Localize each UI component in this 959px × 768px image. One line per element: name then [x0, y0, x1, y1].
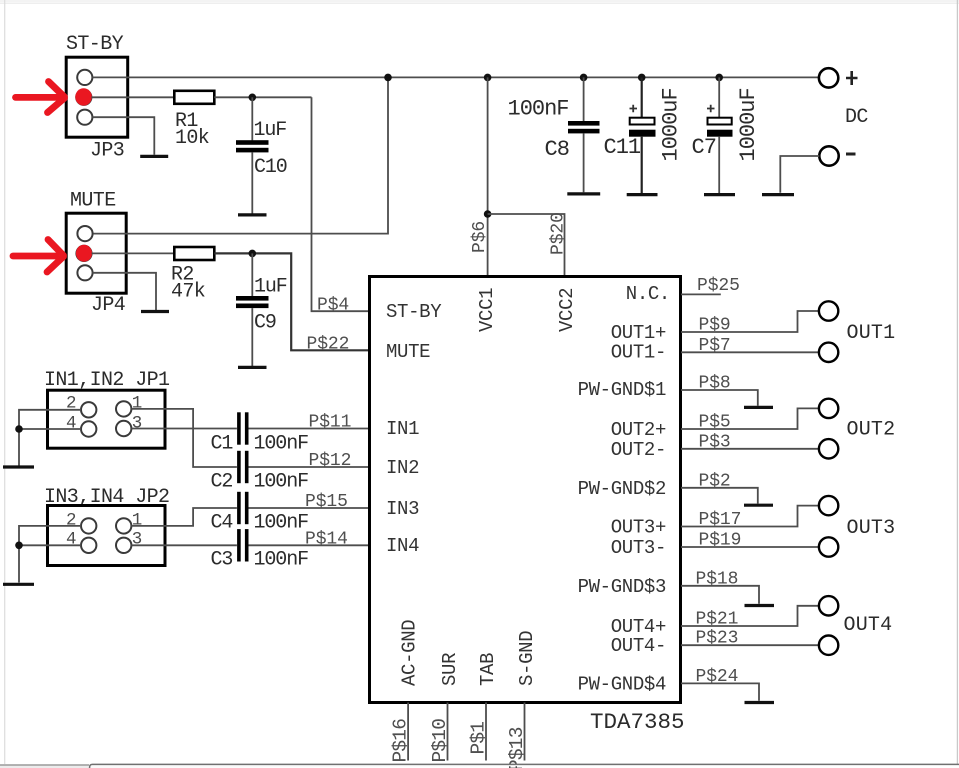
window chrome: top edge	[0, 0, 959, 3]
svg-text:C4: C4	[211, 512, 233, 535]
wire: AC-GND pin stub (P$16)	[407, 703, 409, 761]
connector JP2 body	[48, 506, 166, 566]
svg-text:P$7: P$7	[699, 336, 731, 356]
wire: JP1 pin1 to C2	[131, 409, 237, 467]
svg-text:OUT4-: OUT4-	[611, 635, 666, 657]
wire: DC- to ground	[780, 156, 819, 193]
svg-text:C11: C11	[604, 135, 641, 160]
wire: C8 lower lead	[583, 133, 585, 192]
svg-text:MUTE: MUTE	[70, 190, 116, 213]
JP3 pin 2 circle	[76, 90, 91, 105]
capacitor C8 plates	[568, 121, 600, 126]
plus mark (C7 polarity)	[707, 105, 715, 113]
wire: PW-GND$2 (P$2) to ground	[681, 488, 758, 504]
wire: C10 lower lead	[251, 152, 253, 213]
svg-text:1uF: 1uF	[254, 119, 287, 142]
op-amp/IC U1 body (TDA7385)	[370, 277, 681, 703]
svg-text:P$6: P$6	[470, 221, 490, 253]
svg-text:OUT4: OUT4	[844, 614, 893, 637]
ground (PW-GND$4)	[745, 701, 775, 704]
svg-text:C9: C9	[254, 312, 276, 335]
JP2 pin 1 circle	[116, 518, 131, 533]
svg-text:MUTE: MUTE	[386, 341, 430, 363]
OUT2+ terminal circle	[819, 399, 838, 418]
svg-text:10k: 10k	[175, 127, 209, 150]
capacitor C4 plates	[237, 492, 241, 524]
resistor R2	[174, 247, 214, 260]
capacitor C11 positive plate	[630, 118, 655, 125]
junction on rail at C8	[580, 74, 588, 82]
OUT3+ terminal circle	[819, 496, 838, 515]
wire: OUT4+ (P$21) to terminal	[681, 606, 819, 626]
svg-text:C3: C3	[211, 549, 233, 572]
svg-text:P$18: P$18	[696, 569, 739, 589]
svg-text:P$23: P$23	[696, 629, 739, 649]
wire: PW-GND$1 (P$8) to ground	[681, 390, 758, 406]
svg-text:P$13: P$13	[506, 727, 528, 768]
red annotation dot on JP3 pin 2	[75, 88, 92, 105]
OUT4- terminal circle	[819, 636, 838, 655]
JP4 pin 1 circle	[77, 226, 92, 241]
wire: JP2 pin2 left to ground rail	[19, 526, 81, 583]
svg-text:ST-BY: ST-BY	[386, 301, 442, 323]
svg-text:47k: 47k	[171, 281, 205, 304]
wire: JP2 pin3 to C3	[131, 544, 237, 546]
JP3 pin 1 circle	[77, 70, 92, 85]
wire: OUT2+ (P$5) to terminal	[681, 408, 819, 429]
junction on rail at x=388	[384, 74, 392, 82]
wire: JP1 pin2 left to ground rail	[19, 410, 81, 466]
ground (JP1)	[3, 465, 34, 468]
connector JP1 body	[48, 390, 166, 448]
svg-text:2: 2	[66, 511, 77, 531]
svg-text:3: 3	[132, 530, 143, 550]
wire: OUT2- (P$3) to terminal	[681, 448, 819, 450]
svg-text:1uF: 1uF	[254, 276, 287, 299]
wire: JP4 pin2 to R2	[92, 252, 175, 254]
ground (C11)	[627, 193, 658, 196]
svg-text:P$21: P$21	[696, 610, 739, 630]
wire: C2 to IC IN2 (net P$12)	[249, 466, 370, 468]
svg-text:TAB: TAB	[477, 653, 499, 686]
ground (PW-GND$1)	[744, 406, 773, 409]
svg-text:100nF: 100nF	[254, 433, 309, 456]
red annotation dot on JP4 pin 2	[76, 245, 92, 262]
JP1 pin 4 circle	[81, 421, 96, 436]
wire: C1 to IC IN1 (net P$11)	[249, 428, 370, 430]
svg-text:P$20: P$20	[549, 212, 569, 255]
ground (C9)	[238, 366, 267, 369]
capacitor C2 plates	[237, 451, 241, 483]
wire: C9 lower lead	[251, 308, 253, 366]
junction at R2/C9 node	[249, 250, 257, 258]
JP2 pin 3 circle	[116, 538, 131, 553]
DC- terminal circle	[819, 146, 838, 165]
svg-text:1: 1	[132, 511, 143, 531]
capacitor C10 plates	[236, 140, 269, 145]
svg-text:IN3: IN3	[386, 498, 419, 520]
OUT1- terminal circle	[819, 343, 838, 362]
plus mark (C11 polarity)	[630, 105, 638, 113]
svg-text:IN4: IN4	[386, 535, 419, 557]
DC+ terminal circle	[819, 68, 838, 87]
wire: C11 lower lead	[641, 137, 643, 193]
window chrome: left edge	[4, 0, 6, 764]
svg-text:P$22: P$22	[307, 335, 350, 355]
svg-text:1: 1	[132, 394, 143, 414]
svg-text:P$1: P$1	[468, 722, 490, 755]
wire: JP2 pin1 to C4	[131, 508, 237, 526]
svg-text:P$2: P$2	[699, 471, 731, 491]
wire: C7 upper lead	[718, 77, 720, 117]
svg-text:1000uF: 1000uF	[736, 88, 761, 161]
svg-text:VCC1: VCC1	[476, 288, 498, 332]
OUT2- terminal circle	[819, 439, 838, 458]
wire: JP4 pin3 to ground	[92, 273, 156, 310]
svg-text:JP3: JP3	[90, 140, 124, 163]
wire: SUR pin stub (P$10)	[447, 703, 449, 761]
OUT4+ terminal circle	[819, 596, 838, 615]
ground (C8)	[567, 192, 600, 195]
JP2 pin 2 circle	[81, 518, 96, 533]
wire: N.C. stub (P$25)	[681, 293, 721, 295]
JP4 pin 2 circle	[76, 246, 91, 261]
svg-text:OUT2: OUT2	[847, 419, 896, 442]
svg-text:100nF: 100nF	[254, 512, 309, 535]
wire: R1 to ST-BY net corner	[214, 96, 311, 98]
svg-text:DC: DC	[845, 106, 868, 129]
resistor R1	[174, 91, 214, 104]
wire: OUT4- (P$23) to terminal	[681, 644, 819, 646]
junction on rail at C7	[715, 74, 723, 82]
svg-text:4: 4	[66, 414, 77, 434]
wire: OUT1+ (P$9) to terminal	[681, 311, 819, 332]
wire: PW-GND$4 (P$24) to ground	[681, 683, 759, 700]
wire: C8 upper lead	[583, 77, 585, 121]
svg-text:P$3: P$3	[699, 432, 731, 452]
ground (JP2)	[3, 583, 34, 586]
svg-text:OUT2-: OUT2-	[611, 439, 666, 461]
wire: VCC feed down to IC VCC1 (P$6)	[487, 77, 489, 276]
svg-text:100nF: 100nF	[508, 97, 569, 122]
wire: C4 to IC IN3 (net P$15)	[249, 507, 370, 509]
svg-text:IN2: IN2	[386, 457, 419, 479]
junction on rail at C11	[638, 74, 646, 82]
junction on rail for VCC feed	[484, 74, 492, 82]
JP3 pin 3 circle	[77, 110, 92, 125]
svg-text:P$11: P$11	[309, 413, 352, 433]
svg-text:2: 2	[66, 394, 77, 414]
svg-text:N.C.: N.C.	[626, 283, 670, 305]
connector JP3 body	[66, 57, 128, 137]
connector JP4 body	[66, 213, 126, 293]
wire: JP4 pin1 up to supply rail	[94, 77, 389, 233]
svg-text:OUT3-: OUT3-	[611, 537, 666, 559]
JP1 pin 2 circle	[81, 402, 96, 417]
ground (JP3)	[140, 155, 168, 158]
capacitor C11 negative plate	[629, 130, 656, 137]
svg-text:OUT3: OUT3	[847, 517, 896, 540]
wire: JP2 pin4 left	[19, 544, 81, 546]
svg-text:P$9: P$9	[699, 316, 731, 336]
ground (DC-)	[762, 193, 794, 196]
svg-text:P$17: P$17	[699, 510, 742, 530]
JP1 pin 3 circle	[116, 421, 131, 436]
svg-text:JP4: JP4	[91, 294, 125, 317]
svg-text:P$19: P$19	[699, 531, 742, 551]
wire: PW-GND$3 (P$18) to ground	[681, 586, 759, 604]
svg-text:C8: C8	[545, 137, 569, 162]
wire: S-GND pin stub (P$13)	[524, 703, 526, 761]
svg-text:PW-GND$4: PW-GND$4	[578, 674, 666, 696]
svg-text:P$25: P$25	[697, 276, 740, 296]
wire: JP1 pin3 to C1	[131, 428, 237, 430]
svg-text:VCC2: VCC2	[556, 288, 578, 332]
red annotation arrow 1	[16, 82, 65, 113]
junction JP1 ground node	[15, 425, 23, 433]
OUT3- terminal circle	[819, 537, 838, 556]
wire: JP1 pin4 left	[19, 428, 81, 430]
wire: C10 upper lead	[251, 97, 253, 140]
junction JP2 ground node	[15, 542, 23, 550]
wire: VCC split over to VCC2 (P$20)	[488, 214, 565, 277]
svg-text:ST-BY: ST-BY	[66, 33, 124, 56]
wire: OUT3+ (P$17) to terminal	[681, 506, 819, 527]
svg-text:P$8: P$8	[699, 374, 731, 394]
junction at R1/C10 node	[249, 94, 257, 102]
svg-text:P$10: P$10	[429, 719, 451, 763]
wire: OUT1- (P$7) to terminal	[681, 351, 819, 353]
ground (C7)	[704, 193, 735, 196]
minus mark (DC-)	[846, 153, 856, 156]
ground (PW-GND$2)	[744, 504, 773, 507]
JP2 pin 4 circle	[81, 538, 96, 553]
svg-text:P$12: P$12	[309, 451, 352, 471]
svg-text:P$24: P$24	[696, 667, 739, 687]
capacitor C7 positive plate	[708, 118, 732, 125]
svg-text:100nF: 100nF	[254, 471, 309, 494]
wire: R2 to MUTE net, down to IC pin P$22	[214, 253, 369, 350]
wire: TAB pin stub (P$1)	[485, 703, 487, 761]
svg-text:100nF: 100nF	[254, 549, 309, 572]
svg-text:PW-GND$1: PW-GND$1	[578, 379, 666, 401]
ground (JP4)	[141, 310, 169, 313]
JP1 pin 1 circle	[116, 401, 131, 416]
svg-text:TDA7385: TDA7385	[590, 709, 685, 735]
capacitor C3 plates	[237, 529, 241, 561]
svg-text:OUT1: OUT1	[847, 322, 896, 345]
svg-text:PW-GND$3: PW-GND$3	[578, 576, 666, 598]
svg-text:1000uF: 1000uF	[659, 88, 684, 161]
junction at VCC split	[484, 210, 492, 218]
wire: C9 upper lead	[251, 253, 253, 296]
svg-text:S-GND: S-GND	[516, 631, 538, 686]
strip top border left segment	[0, 764, 89, 766]
OUT1+ terminal circle	[819, 301, 838, 320]
svg-text:IN1,IN2 JP1: IN1,IN2 JP1	[44, 369, 170, 392]
capacitor C9 plates	[236, 296, 269, 301]
svg-text:P$4: P$4	[317, 296, 349, 316]
svg-text:SUR: SUR	[439, 653, 461, 686]
wire: C11 upper lead	[641, 77, 643, 117]
svg-text:C7: C7	[692, 135, 716, 160]
svg-text:OUT1-: OUT1-	[611, 342, 666, 364]
svg-text:C2: C2	[211, 471, 233, 494]
svg-text:P$16: P$16	[390, 719, 412, 763]
capacitor C1 plates	[237, 412, 241, 444]
wire: top supply rail (JP3 pin1 to DC+)	[92, 76, 819, 78]
capacitor C7 negative plate	[707, 130, 733, 137]
svg-text:AC-GND: AC-GND	[399, 620, 421, 686]
scrollbar panel with rounded corner	[90, 764, 959, 768]
wire: JP3 pin3 to ground	[92, 117, 154, 155]
status strip background	[0, 766, 90, 768]
svg-text:C1: C1	[211, 433, 234, 456]
svg-text:P$15: P$15	[305, 492, 348, 512]
svg-text:OUT3+: OUT3+	[611, 517, 666, 539]
svg-text:C10: C10	[254, 156, 287, 179]
JP4 pin 3 circle	[77, 265, 92, 280]
wire: C7 lower lead	[718, 137, 720, 193]
svg-text:P$5: P$5	[699, 413, 731, 433]
wire: JP3 pin2 to R1	[91, 96, 174, 98]
svg-text:PW-GND$2: PW-GND$2	[578, 478, 666, 500]
svg-text:3: 3	[132, 414, 143, 434]
plus mark (DC+)	[846, 71, 858, 85]
svg-text:P$14: P$14	[305, 529, 348, 549]
window chrome: right edge	[956, 0, 958, 764]
wire: ST-BY net down to IC pin P$4	[312, 97, 370, 311]
ground (C10)	[238, 213, 267, 216]
svg-text:4: 4	[66, 530, 77, 550]
ground (PW-GND$3)	[745, 604, 775, 607]
svg-text:IN1: IN1	[386, 418, 419, 440]
wire: OUT3- (P$19) to terminal	[681, 546, 819, 548]
red annotation arrow 2	[13, 240, 64, 273]
wire: C3 to IC IN4 (net P$14)	[249, 544, 370, 546]
